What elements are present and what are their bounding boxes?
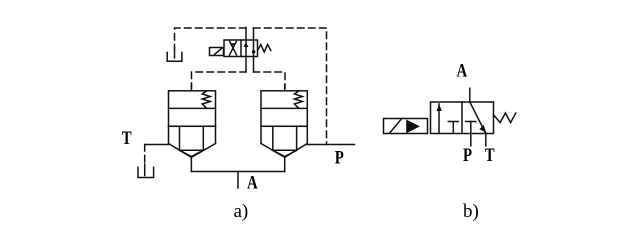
svg-text:A: A	[247, 172, 258, 193]
valve V2 right square diagonal arrow	[470, 102, 487, 134]
dashed pilot wire to right cartridge	[254, 72, 286, 89]
pilot line wire v2	[253, 28, 255, 72]
valve V2 T stub	[485, 134, 487, 146]
drain wire dashed	[144, 145, 146, 165]
pilot valve U1 body	[224, 40, 258, 57]
cartridge valve CV1 sleeve	[169, 126, 216, 157]
valve V2 left square blocked port	[448, 122, 458, 134]
svg-text:P: P	[335, 147, 344, 168]
dashed pilot wire top-right	[254, 28, 327, 145]
svg-text:A: A	[457, 60, 468, 81]
svg-text:a): a)	[234, 201, 249, 222]
cartridge valve CV1 spring	[202, 91, 210, 108]
node A stub	[237, 172, 239, 189]
svg-text:P: P	[463, 144, 472, 165]
cartridge valve CV2 sleeve	[261, 126, 307, 157]
svg-text:b): b)	[463, 201, 479, 222]
valve V2 solenoid	[384, 119, 428, 134]
pilot line wire v1	[245, 28, 247, 72]
cartridge valve CV1 poppet	[180, 126, 204, 156]
cartridge valve CV1 body	[169, 91, 216, 127]
pilot valve U1 solenoid box	[210, 48, 224, 56]
cartridge valve CV1 pilot stub	[190, 85, 192, 91]
cartridge valve CV2 bottom wire	[284, 157, 286, 171]
dashed pilot wire to left cartridge	[192, 72, 247, 89]
cartridge valve CV1 bottom wire	[190, 157, 192, 171]
pilot valve U1 up arrow	[244, 42, 249, 47]
valve V2 P stub	[470, 134, 472, 146]
cartridge valve CV2 pilot stub	[284, 85, 286, 91]
valve V2 body	[431, 102, 494, 134]
tank symbol top	[167, 48, 182, 61]
svg-text:T: T	[485, 144, 495, 165]
svg-text:T: T	[122, 127, 132, 148]
valve V2 spring	[494, 113, 516, 123]
valve V2 right square blocked port	[466, 122, 476, 134]
node T wire	[145, 144, 169, 146]
valve V2 left square arrow	[437, 104, 442, 134]
tank symbol bottom	[138, 164, 154, 178]
junction dot	[252, 50, 256, 54]
node P wire	[307, 144, 354, 146]
cartridge valve CV2 poppet	[273, 126, 297, 156]
dashed pilot wire top-left	[175, 28, 247, 48]
valve V2 A wire	[469, 88, 471, 102]
cartridge valve CV2 body	[261, 91, 307, 127]
pilot valve U1 spring	[258, 45, 271, 53]
pilot valve U1 crossed arrows	[230, 42, 237, 56]
cartridge valve CV2 spring	[294, 91, 302, 108]
node A wire	[191, 171, 284, 173]
